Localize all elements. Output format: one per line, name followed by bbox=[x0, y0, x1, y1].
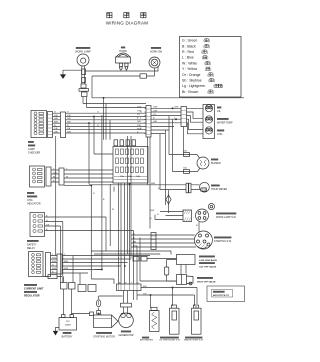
svg-text:WATER TEMP: WATER TEMP bbox=[217, 122, 233, 125]
svg-text:G/B: G/B bbox=[54, 131, 58, 133]
svg-text:G/R: G/R bbox=[54, 118, 58, 120]
svg-text:B: B bbox=[103, 199, 105, 201]
vertical bus wires bbox=[55, 136, 57, 256]
svg-text:STARTING MOTOR: STARTING MOTOR bbox=[93, 336, 115, 339]
legend kanji squares bbox=[202, 39, 224, 94]
svg-text:R: R bbox=[157, 214, 159, 216]
svg-text:Y/G: Y/G bbox=[52, 257, 56, 259]
air heater relay label box bbox=[207, 286, 245, 302]
svg-text:WORK LAMP S.W: WORK LAMP S.W bbox=[216, 216, 236, 219]
svg-text:R/B: R/B bbox=[67, 122, 71, 124]
svg-text:): ) bbox=[209, 44, 210, 48]
fuse F-AH bbox=[167, 260, 177, 282]
battery BT bbox=[59, 318, 77, 331]
lamp checker connector bbox=[31, 111, 47, 138]
horn H1 bbox=[116, 53, 130, 57]
svg-text:): ) bbox=[213, 73, 214, 77]
hour meter HM bbox=[200, 182, 210, 192]
current limiter strip 2 bbox=[57, 254, 62, 274]
wire battery to starter bbox=[72, 314, 90, 315]
svg-text:AIR HTR PILOT: AIR HTR PILOT bbox=[213, 294, 230, 297]
work lamp switch pilot bbox=[208, 204, 214, 210]
fusible link FL2 bbox=[168, 190, 170, 213]
svg-text:BUZZER: BUZZER bbox=[211, 162, 221, 165]
svg-text:HORN: HORN bbox=[119, 50, 127, 53]
charge ind strip 2 bbox=[59, 168, 64, 185]
svg-text:HORN SW: HORN SW bbox=[150, 51, 163, 54]
connector CN-WL bbox=[81, 84, 86, 88]
sprinkled wire tags bbox=[46, 107, 160, 296]
connector CN-H bbox=[140, 74, 147, 78]
cut off valve bbox=[181, 265, 186, 275]
svg-text:CHECKER: CHECKER bbox=[28, 152, 40, 155]
svg-text:CURRENT LIMIT: CURRENT LIMIT bbox=[24, 288, 44, 291]
svg-text:STARTING S.W: STARTING S.W bbox=[214, 240, 232, 243]
svg-text:Lg : Lightgreen: Lg : Lightgreen bbox=[182, 84, 205, 88]
svg-text:G/W: G/W bbox=[137, 107, 141, 109]
svg-text:B: B bbox=[150, 218, 152, 220]
svg-text:G/R: G/R bbox=[153, 121, 157, 123]
starting switch wires bbox=[131, 222, 199, 247]
starting motor SM bbox=[94, 315, 112, 328]
hour meter wires bbox=[89, 185, 186, 190]
svg-text:Y/B: Y/B bbox=[54, 115, 58, 117]
wire tags bbox=[54, 112, 142, 134]
inline connector pair B bbox=[78, 285, 86, 292]
svg-text:AIR HEATER: AIR HEATER bbox=[140, 339, 153, 342]
svg-text:W: W bbox=[53, 176, 55, 178]
svg-text:W: W bbox=[66, 176, 68, 178]
svg-text:): ) bbox=[213, 90, 214, 94]
safety relay wires bbox=[45, 217, 134, 231]
current limiter wires bbox=[51, 256, 58, 274]
svg-text:LOW HIGH BACK: LOW HIGH BACK bbox=[199, 259, 218, 262]
svg-text:Br : Brown: Br : Brown bbox=[182, 90, 198, 94]
svg-text:L/R: L/R bbox=[46, 224, 50, 226]
water temp switch WTS bbox=[195, 306, 197, 308]
svg-text:): ) bbox=[210, 61, 211, 65]
lamp CHG bbox=[205, 127, 212, 134]
starting switch SW-ST bbox=[194, 231, 212, 249]
cross wires to controller bbox=[91, 251, 171, 255]
svg-text:L : Blue: L : Blue bbox=[182, 56, 194, 60]
svg-text:RELAY: RELAY bbox=[27, 247, 35, 250]
svg-text:B/W: B/W bbox=[52, 261, 56, 263]
svg-text:L/W: L/W bbox=[137, 125, 141, 127]
starting switch connector strip bbox=[151, 233, 156, 250]
wire horn switch lower bbox=[92, 68, 155, 76]
svg-text:G/R: G/R bbox=[137, 121, 141, 123]
lamp checker label bbox=[28, 141, 40, 155]
svg-text:WATER TEMP S.W: WATER TEMP S.W bbox=[184, 339, 204, 342]
svg-text:B/W: B/W bbox=[64, 261, 68, 263]
current limiter strip 1 bbox=[46, 253, 51, 277]
svg-text:): ) bbox=[210, 67, 211, 71]
svg-text:B: B bbox=[137, 118, 139, 120]
svg-text:HOUR METER: HOUR METER bbox=[211, 188, 227, 191]
work lamp switch SW-WL bbox=[196, 209, 209, 222]
wires below bar C bbox=[124, 291, 138, 304]
svg-text:Y/W: Y/W bbox=[137, 110, 141, 112]
svg-text:): ) bbox=[209, 39, 210, 43]
svg-text:INDICATOR: INDICATOR bbox=[27, 203, 41, 206]
work lamp WL1 bbox=[77, 54, 89, 66]
svg-text:G: G bbox=[54, 112, 56, 114]
svg-text:): ) bbox=[222, 84, 223, 88]
strip B connector bbox=[181, 107, 187, 127]
svg-text:Sb : Skyblue: Sb : Skyblue bbox=[182, 79, 202, 83]
ground GND1 bbox=[63, 70, 82, 74]
svg-text:10A: 10A bbox=[136, 175, 140, 178]
horn switch SW-H bbox=[149, 57, 160, 68]
lamp checker strip 2 bbox=[61, 112, 66, 138]
svg-text:CHG: CHG bbox=[217, 133, 222, 136]
inline connector bar C bbox=[117, 284, 142, 291]
horn switch label bbox=[150, 47, 163, 54]
horn leads bbox=[121, 69, 127, 71]
long wires to engine sensors bbox=[137, 288, 197, 309]
svg-text:12V: 12V bbox=[66, 321, 70, 323]
svg-text:B : Black: B : Black bbox=[182, 44, 196, 48]
svg-text:BR: BR bbox=[133, 242, 136, 244]
svg-text:BATTERY: BATTERY bbox=[62, 336, 73, 339]
controller box (lamp timer) bbox=[177, 255, 196, 265]
wire horn to switch bbox=[85, 66, 158, 71]
buzzer wires + fuses bbox=[169, 155, 198, 172]
svg-text:G/B: G/B bbox=[67, 131, 71, 133]
svg-text:REGULATOR: REGULATOR bbox=[24, 295, 40, 298]
svg-text:CUT OFF VALVE: CUT OFF VALVE bbox=[199, 265, 217, 268]
svg-text:Y/L: Y/L bbox=[137, 114, 141, 116]
svg-text:): ) bbox=[207, 50, 208, 54]
svg-text:W : White: W : White bbox=[182, 61, 197, 65]
generator GEN bbox=[121, 303, 132, 307]
horn label bbox=[119, 47, 127, 53]
svg-text:R/G: R/G bbox=[137, 128, 141, 130]
fuse box bbox=[113, 147, 148, 184]
svg-text:W: W bbox=[112, 209, 114, 211]
svg-text:10A: 10A bbox=[128, 175, 132, 178]
fusible link FL1 bbox=[96, 300, 100, 307]
fuse F1 on work lamp lead bbox=[82, 66, 85, 84]
svg-text:R/W: R/W bbox=[150, 210, 154, 212]
svg-text:WIRING DIAGRAM: WIRING DIAGRAM bbox=[106, 21, 149, 26]
svg-text:SHUT OFF VALVE: SHUT OFF VALVE bbox=[197, 280, 216, 283]
svg-text:60AH: 60AH bbox=[65, 324, 71, 327]
svg-text:15A: 15A bbox=[120, 175, 124, 178]
monitor box bbox=[203, 105, 215, 139]
safety relay label bbox=[27, 240, 39, 250]
svg-text:R/W: R/W bbox=[52, 268, 56, 270]
svg-text:R: R bbox=[196, 225, 198, 227]
work lamp switch connector bbox=[183, 210, 192, 222]
svg-text:WORK LAMP: WORK LAMP bbox=[75, 50, 91, 54]
charge indicator label bbox=[27, 192, 41, 206]
svg-text:GENERATOR: GENERATOR bbox=[119, 334, 134, 337]
svg-text:15A: 15A bbox=[183, 167, 187, 170]
fuse box top pins bbox=[114, 140, 118, 146]
wire strip B to fuse bbox=[183, 127, 185, 153]
svg-text:Y : Yellow: Y : Yellow bbox=[182, 67, 198, 71]
charge indicator connector bbox=[30, 166, 45, 187]
monitor labels bbox=[217, 107, 233, 137]
wires strip B to monitor bbox=[187, 108, 204, 134]
svg-text:G : Green: G : Green bbox=[182, 39, 197, 43]
charge ind strip 1 bbox=[46, 167, 51, 186]
inline connector pair A bbox=[61, 283, 68, 290]
lamp OIL bbox=[205, 105, 212, 112]
junction dots sensors bbox=[150, 287, 174, 296]
air heater AH bbox=[151, 307, 157, 310]
legend box bbox=[180, 37, 242, 98]
wires strip A to strip B bbox=[151, 108, 181, 133]
safety relay bbox=[30, 213, 45, 237]
title 配線図 kanji blobs bbox=[107, 13, 146, 18]
svg-text:): ) bbox=[207, 56, 208, 60]
battery ground bbox=[56, 328, 60, 332]
strip A pin nubs bbox=[145, 108, 147, 133]
svg-text:G/R: G/R bbox=[67, 118, 71, 120]
inline connectors CN-C bbox=[133, 256, 139, 261]
svg-text:OIL PRESSURE S.W: OIL PRESSURE S.W bbox=[159, 340, 181, 342]
svg-text:L/B: L/B bbox=[54, 128, 58, 130]
svg-text:R/W: R/W bbox=[64, 268, 68, 270]
buzzer BZ bbox=[197, 157, 209, 169]
junction dots bbox=[88, 97, 130, 314]
current limit regulator connector bbox=[29, 252, 44, 277]
work lamp label bbox=[75, 47, 91, 54]
svg-text:15A: 15A bbox=[183, 150, 187, 153]
wire top bus to right bbox=[92, 76, 244, 98]
oil pressure switch OPS bbox=[172, 305, 177, 308]
svg-text:): ) bbox=[214, 79, 215, 83]
work lamp switch wires bbox=[155, 212, 183, 220]
charge indicator wires bbox=[51, 170, 59, 182]
harness wires band bbox=[53, 113, 61, 133]
svg-text:OIL: OIL bbox=[217, 110, 222, 113]
current limiter label bbox=[24, 284, 44, 298]
cross-links safety relay to right bbox=[105, 217, 107, 251]
svg-text:R : Red: R : Red bbox=[182, 50, 194, 54]
svg-text:R/B: R/B bbox=[54, 122, 58, 124]
inline fuse F-CL bbox=[43, 276, 62, 278]
svg-text:G/R: G/R bbox=[53, 172, 57, 174]
lamp checker strip 1 bbox=[48, 112, 53, 138]
strip A connector bbox=[146, 106, 151, 138]
lamp WATER TEMP bbox=[205, 116, 212, 123]
hour meter connector bbox=[186, 183, 188, 193]
legend rows bbox=[182, 39, 205, 94]
svg-text:R: R bbox=[93, 193, 95, 195]
svg-text:Or : Orange: Or : Orange bbox=[182, 73, 201, 77]
